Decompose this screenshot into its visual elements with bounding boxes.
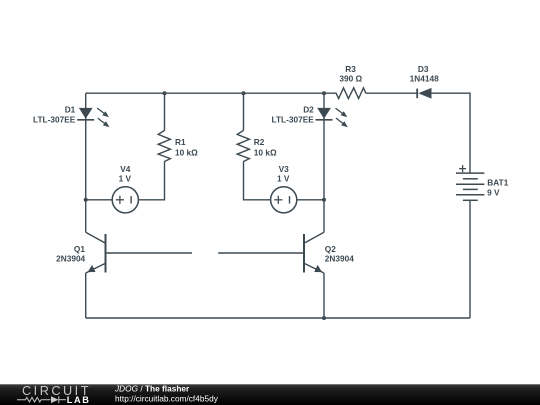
svg-text:D2: D2 <box>303 105 314 115</box>
wire R1 branch top <box>164 93 166 130</box>
svg-text:LTL-307EE: LTL-307EE <box>272 114 315 124</box>
svg-text:10 kΩ: 10 kΩ <box>254 147 277 157</box>
svg-text:1 V: 1 V <box>119 174 132 184</box>
node dot top R2 <box>242 91 246 95</box>
footer logo wire and diode <box>17 396 66 403</box>
wire bottom rail <box>86 317 470 319</box>
LED D2 <box>316 108 348 127</box>
voltage source V3 <box>271 187 297 213</box>
wire D2 branch vertical <box>323 93 325 232</box>
label Q1 <box>56 244 85 264</box>
resistor R1 <box>158 130 170 161</box>
label D3 <box>410 64 439 84</box>
resistor R3 <box>333 88 366 99</box>
svg-text:V3: V3 <box>279 164 290 174</box>
wire left branch vertical <box>85 93 87 232</box>
wire top rail mid (R3 to D3) <box>366 92 417 94</box>
diode D3 <box>417 88 431 99</box>
svg-text:2N3904: 2N3904 <box>325 253 354 263</box>
svg-text:V4: V4 <box>120 164 131 174</box>
svg-text:1 V: 1 V <box>277 174 290 184</box>
label R2 <box>254 137 277 157</box>
node dot top R1 <box>163 91 167 95</box>
svg-text:JDOG / The flasher: JDOG / The flasher <box>114 384 190 394</box>
svg-text:390 Ω: 390 Ω <box>339 74 362 84</box>
transistor Q1 <box>86 232 106 273</box>
transistor Q2 <box>304 232 324 273</box>
footer title text <box>114 384 219 404</box>
svg-text:LTL-307EE: LTL-307EE <box>33 114 76 124</box>
wire Q1 emitter vertical <box>85 273 87 318</box>
battery BAT1 <box>456 165 484 200</box>
wire top rail left <box>86 92 333 94</box>
svg-text:LAB: LAB <box>67 395 91 405</box>
node dot top D2 <box>322 91 326 95</box>
svg-text:1N4148: 1N4148 <box>410 74 439 84</box>
wire V4 left to node <box>86 199 113 201</box>
wire battery bottom to rail <box>469 200 471 318</box>
label Q2 <box>325 244 354 264</box>
voltage source V4 <box>112 187 138 213</box>
wire V3 right to node <box>297 199 324 201</box>
svg-text:BAT1: BAT1 <box>487 177 508 187</box>
label D2 <box>272 105 315 125</box>
footer logo LAB <box>67 395 91 405</box>
svg-text:R2: R2 <box>254 137 265 147</box>
svg-text:2N3904: 2N3904 <box>56 253 85 263</box>
svg-text:Q1: Q1 <box>74 244 85 254</box>
LED D1 <box>77 108 109 127</box>
node dot V3 right <box>322 198 326 202</box>
svg-text:D1: D1 <box>65 105 76 115</box>
svg-text:D3: D3 <box>418 64 429 74</box>
wire R2 branch top <box>243 93 245 130</box>
svg-text:Q2: Q2 <box>325 244 336 254</box>
svg-text:10 kΩ: 10 kΩ <box>175 147 198 157</box>
svg-text:http://circuitlab.com/cf4b5dy: http://circuitlab.com/cf4b5dy <box>115 393 219 403</box>
svg-text:R1: R1 <box>175 137 186 147</box>
wire R1 bottom to V4 <box>138 161 164 200</box>
svg-text:R3: R3 <box>345 64 356 74</box>
wire R2 bottom to V3 <box>244 161 271 200</box>
svg-text:9 V: 9 V <box>487 188 500 198</box>
label D1 <box>33 105 76 125</box>
wire Q2 base lead <box>218 252 304 254</box>
resistor R2 <box>237 130 249 161</box>
wire Q2 emitter vertical <box>323 273 325 318</box>
node dot bottom rail <box>322 316 326 320</box>
node dot V4 left <box>84 198 88 202</box>
label BAT1 <box>487 177 509 197</box>
label R1 <box>175 137 198 157</box>
footer bar <box>0 384 540 405</box>
wire Q1 base lead <box>106 252 193 254</box>
label R3 <box>339 64 362 84</box>
label V3 <box>277 164 290 184</box>
footer logo CIRCUIT <box>22 384 91 398</box>
label V4 <box>119 164 132 184</box>
wire top rail right (D3 to corner) <box>432 93 471 173</box>
